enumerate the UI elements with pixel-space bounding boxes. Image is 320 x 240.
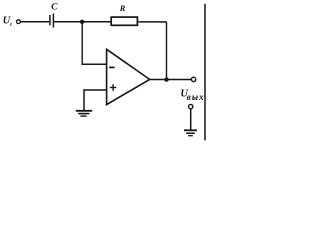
wire node A down to inverting input (81, 22, 83, 64)
wire horizontal into non-inverting input (84, 89, 107, 91)
wire lower terminal to ground (190, 109, 192, 130)
svg-text:C: C (51, 3, 58, 13)
wire non-inverting input down to ground (83, 89, 85, 110)
ground (non-inverting input) (76, 111, 92, 116)
op-amp non-inverting pin plus sign (110, 84, 117, 91)
node B output junction dot (164, 77, 168, 81)
svg-text:R: R (119, 3, 126, 13)
node A junction dot (cap / R / inverting input) (80, 20, 84, 24)
page column rule (right border line) (204, 4, 206, 141)
wire op-amp output to output terminal (149, 79, 191, 81)
resistor R (111, 3, 137, 25)
ground (output reference) (184, 130, 197, 135)
op-amp inverting pin minus sign (109, 66, 115, 68)
node Ui input label (3, 16, 13, 28)
node Uout output label (180, 88, 204, 101)
capacitor C (50, 3, 58, 28)
wire horizontal into inverting input (82, 63, 107, 65)
op-amp U1 triangle (107, 49, 150, 104)
output terminal (191, 77, 195, 81)
lower output reference terminal (189, 104, 193, 108)
wire capacitor to junction node A (54, 21, 82, 23)
wire junction to resistor (82, 21, 111, 23)
svg-text:вых: вых (187, 92, 205, 102)
wire resistor to top-right corner (138, 21, 166, 23)
wire input terminal to capacitor (21, 21, 50, 23)
wire feedback vertical down to output node (166, 22, 168, 80)
input terminal (17, 20, 21, 24)
